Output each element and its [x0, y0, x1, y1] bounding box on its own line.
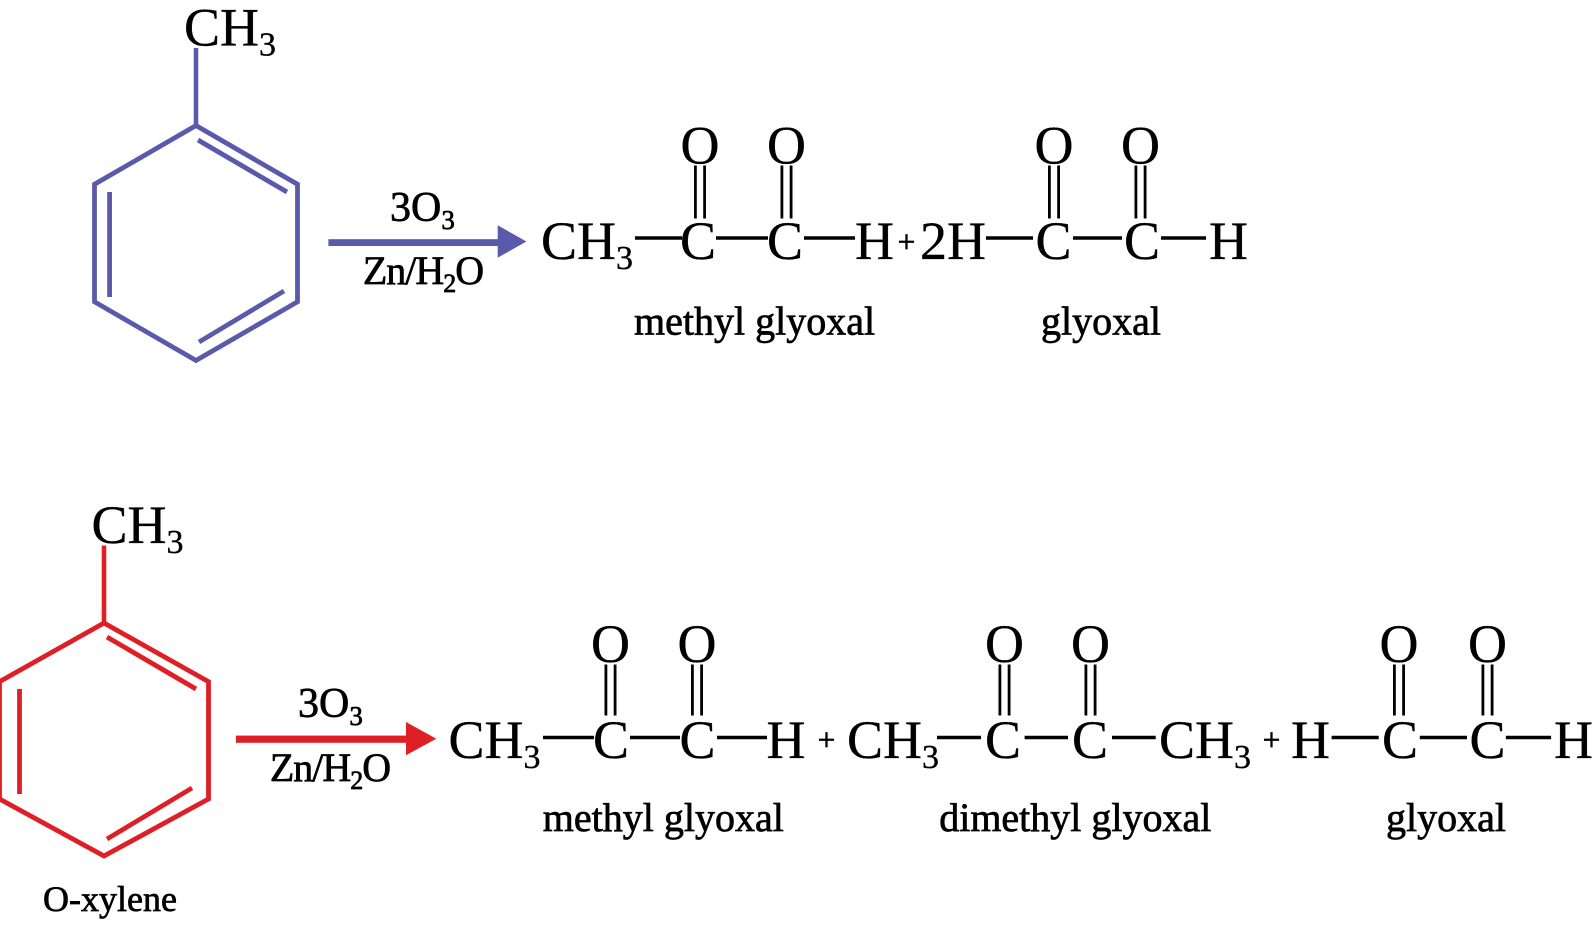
- svg-text:+: +: [898, 224, 915, 259]
- bond C-H: [1506, 736, 1551, 740]
- svg-text:glyoxal: glyoxal: [1386, 795, 1506, 840]
- svg-text:CH3: CH3: [541, 211, 633, 277]
- svg-text:3O3: 3O3: [390, 185, 455, 235]
- C=O double bond 5: [1393, 665, 1396, 716]
- svg-text:methyl glyoxal: methyl glyoxal: [634, 299, 875, 344]
- o-xylene ring inner double bond 1: [107, 637, 196, 689]
- toluene benzene ring: [95, 126, 298, 361]
- svg-text:O-xylene: O-xylene: [43, 879, 177, 919]
- svg-text:CH3: CH3: [1159, 710, 1251, 776]
- svg-text:O: O: [678, 614, 717, 674]
- svg-text:methyl glyoxal: methyl glyoxal: [543, 795, 784, 840]
- svg-text:C: C: [1035, 211, 1071, 271]
- C=O double bond 4: [1085, 665, 1088, 716]
- svg-text:C: C: [679, 710, 715, 770]
- svg-text:C: C: [593, 710, 629, 770]
- svg-text:Zn/H2O: Zn/H2O: [270, 745, 390, 795]
- svg-text:C: C: [680, 211, 716, 271]
- C=O double bond 1: [605, 665, 608, 716]
- bond C-H: [804, 236, 855, 240]
- C=O double bond 3: [999, 665, 1002, 716]
- reaction arrow 2 (red): [236, 722, 436, 755]
- bond C-C: [1073, 236, 1122, 240]
- C=O double bond 1: [694, 166, 697, 219]
- toluene ring inner double bond 3: [199, 291, 284, 342]
- bond C-H: [717, 736, 767, 740]
- svg-text:H: H: [1554, 710, 1593, 770]
- svg-text:O: O: [681, 116, 720, 176]
- svg-text:C: C: [985, 710, 1021, 770]
- o-xylene ring inner double bond 3: [107, 788, 192, 839]
- toluene ring inner double bond 1: [198, 140, 287, 192]
- svg-text:O: O: [985, 614, 1024, 674]
- svg-text:C: C: [767, 211, 803, 271]
- svg-text:O: O: [767, 116, 806, 176]
- svg-text:+: +: [818, 722, 835, 757]
- svg-text:dimethyl glyoxal: dimethyl glyoxal: [939, 795, 1211, 840]
- svg-text:O: O: [591, 614, 630, 674]
- C=O double bond 2: [691, 665, 694, 716]
- bond CH3-C: [635, 236, 682, 240]
- svg-text:3O3: 3O3: [298, 681, 363, 731]
- C=O double bond 4: [1135, 166, 1138, 219]
- bond C-C: [1420, 736, 1467, 740]
- bond C-C: [630, 736, 680, 740]
- bond: o-xylene ring to CH3: [102, 546, 107, 624]
- C=O double bond 6: [1482, 665, 1485, 716]
- bond C-C: [1025, 736, 1068, 740]
- bond: toluene ring to CH3: [194, 48, 199, 126]
- svg-text:CH3: CH3: [449, 710, 541, 776]
- svg-text:C: C: [1124, 211, 1160, 271]
- bond 2H-C: [986, 236, 1033, 240]
- svg-text:C: C: [1382, 710, 1418, 770]
- bond C-CH3: [1112, 736, 1156, 740]
- bond H-C: [1332, 736, 1379, 740]
- svg-text:CH3: CH3: [184, 0, 276, 64]
- o-xylene benzene ring: [0, 623, 209, 856]
- o-xylene ring inner double bond 2: [17, 689, 22, 794]
- svg-text:O: O: [1468, 614, 1507, 674]
- svg-text:+: +: [1263, 722, 1280, 757]
- svg-text:CH3: CH3: [847, 710, 939, 776]
- C=O double bond 3: [1048, 166, 1051, 219]
- svg-text:glyoxal: glyoxal: [1041, 299, 1161, 344]
- svg-text:O: O: [1121, 116, 1160, 176]
- svg-text:O: O: [1071, 614, 1110, 674]
- svg-text:2H: 2H: [920, 211, 986, 271]
- svg-text:O: O: [1380, 614, 1419, 674]
- svg-text:H: H: [767, 710, 806, 770]
- toluene ring inner double bond 2: [107, 192, 112, 297]
- svg-text:Zn/H2O: Zn/H2O: [363, 248, 483, 298]
- bond C-C: [716, 236, 768, 240]
- svg-text:CH3: CH3: [92, 495, 184, 561]
- bond CH3-C: [937, 736, 981, 740]
- reaction arrow 1 (blue): [328, 225, 526, 257]
- bond CH3-C: [543, 736, 594, 740]
- C=O double bond 2: [781, 166, 784, 219]
- svg-text:H: H: [1291, 710, 1330, 770]
- svg-text:H: H: [855, 211, 894, 271]
- bond C-H: [1161, 236, 1206, 240]
- svg-text:C: C: [1469, 710, 1505, 770]
- svg-text:C: C: [1072, 710, 1108, 770]
- svg-text:H: H: [1209, 211, 1248, 271]
- svg-text:O: O: [1035, 116, 1074, 176]
